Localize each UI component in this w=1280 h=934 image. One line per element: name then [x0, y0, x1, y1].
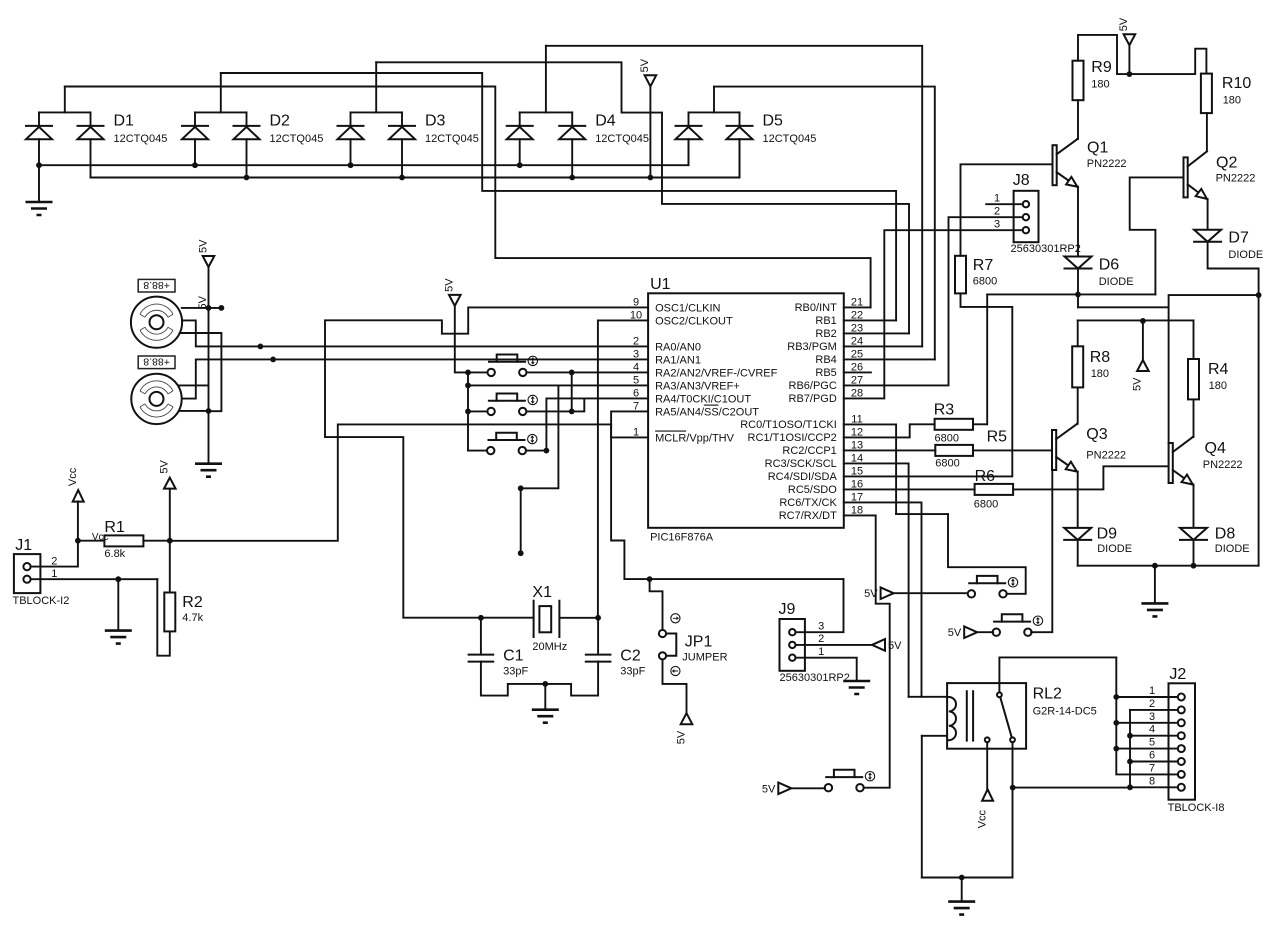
wire Q3 emitter to D9 [1076, 472, 1079, 528]
svg-text:+88.8: +88.8 [143, 279, 170, 291]
junction bus ground stem [1152, 563, 1158, 569]
junction J2 odd column y=697.0 [1113, 694, 1119, 700]
ground near D1 [26, 202, 53, 215]
svg-text:J1: J1 [15, 537, 32, 554]
wire 5V to button A [894, 592, 968, 594]
junction right rail [1256, 292, 1262, 298]
junction bus2 x=650.4 [648, 175, 654, 181]
junction row1 branch [569, 370, 575, 376]
svg-text:12CTQ045: 12CTQ045 [425, 133, 479, 145]
svg-text:U1: U1 [650, 276, 671, 293]
svg-text:PN2222: PN2222 [1087, 158, 1127, 170]
push button B [993, 629, 1000, 636]
wire motor1 pin A [182, 307, 222, 309]
wire bus1 cathode rail [39, 139, 689, 165]
D2 diode B bottom lead [246, 139, 248, 177]
junction on RA1 wire [270, 357, 276, 363]
ground relay [948, 902, 975, 915]
wire Q1 emitter to D6 [1076, 187, 1079, 257]
wire R9 top to 5V rail [1078, 35, 1206, 74]
power 5V button B [964, 626, 977, 638]
svg-text:2: 2 [1149, 698, 1155, 710]
wire J8 pin3 to RB7 pin28 [844, 230, 1023, 398]
D5 diode A bottom lead [688, 139, 690, 165]
diode D5 A [676, 125, 702, 127]
transistor Q4 PN2222 [1169, 443, 1173, 483]
wire RC1 pin12 jog [844, 424, 935, 437]
svg-text:5V: 5V [159, 459, 171, 473]
diode D6 [1065, 257, 1092, 269]
svg-text:3: 3 [994, 218, 1000, 230]
wire J2 odd pin at y=748.6 [1116, 748, 1178, 750]
svg-text:TBLOCK-I8: TBLOCK-I8 [1168, 802, 1225, 814]
power 5V near D4 [645, 75, 657, 86]
JP1 actuator icon top [671, 614, 680, 623]
wire RC6 pin17 down [844, 502, 922, 696]
svg-text:2: 2 [994, 205, 1000, 217]
junction bus2 x=402.0 [399, 175, 405, 181]
D5 diode B top lead [739, 112, 741, 126]
J9 pin1 circle [789, 655, 795, 661]
svg-text:5: 5 [1149, 737, 1155, 749]
svg-text:J9: J9 [779, 601, 796, 618]
resistor R3 [935, 419, 973, 430]
J2 pin 6 circle [1178, 758, 1185, 765]
wire R6 left lead [844, 488, 975, 490]
diode D3 B [389, 125, 415, 127]
svg-text:5V: 5V [864, 588, 878, 600]
J8 25630301RP2 body [1014, 191, 1039, 242]
wire D9 bottom [1077, 540, 1079, 566]
svg-text:RC3/SCK/SCL: RC3/SCK/SCL [765, 458, 837, 470]
J8 pin1 circle [1023, 201, 1029, 207]
power Vcc relay [982, 789, 993, 801]
wire relay common riser [999, 657, 1116, 692]
transistor Q1 PN2222 [1053, 145, 1057, 185]
JP1 bottom circle [659, 652, 666, 659]
resistor R4 [1188, 359, 1199, 399]
svg-text:180: 180 [1223, 95, 1241, 107]
wire J9 pin1 to ground [796, 658, 857, 681]
wire Vcc to R1 [78, 540, 105, 542]
svg-text:D7: D7 [1228, 230, 1249, 247]
svg-text:Q1: Q1 [1087, 140, 1108, 157]
wire RC0 pin11 down [844, 424, 896, 514]
svg-text:5V: 5V [675, 730, 687, 744]
resistor R6 [975, 484, 1014, 495]
svg-text:1: 1 [818, 646, 824, 658]
J8 pin2 circle [1023, 214, 1029, 220]
svg-text:4: 4 [1149, 724, 1155, 736]
relay NC terminal [985, 737, 990, 742]
J9 pin3 circle [789, 629, 795, 635]
resistor R5 [935, 445, 973, 456]
wire R1 right [143, 540, 169, 542]
svg-text:D3: D3 [425, 113, 446, 130]
push button A [968, 590, 975, 597]
junction MCLR JP1 [647, 576, 653, 582]
wire 5V to button C [791, 787, 825, 789]
junction bus1 x=519.7 [517, 162, 523, 168]
D5 diode B bottom lead [739, 139, 741, 177]
wire relay ground stem [961, 878, 963, 902]
wire R7 bottom to RC4 pin15 [844, 293, 1013, 476]
svg-text:6800: 6800 [935, 433, 959, 445]
svg-text:D4: D4 [595, 113, 616, 130]
svg-text:Q4: Q4 [1205, 440, 1226, 457]
wire 5V-D4 to bus2 [649, 86, 651, 177]
D5 top bar [689, 111, 740, 113]
resistor R9 [1073, 61, 1084, 100]
power 5V above buttons [449, 295, 461, 306]
J9 25630301RP2 body [780, 619, 805, 671]
junction Vcc node [75, 538, 81, 544]
wire diode ground bus [1078, 565, 1259, 567]
junction motor2 C and 5V column [206, 408, 212, 414]
wire RC0-RC6 link [896, 513, 948, 515]
junction bus1 x=39.0 [36, 162, 42, 168]
wire RA3 branch down [521, 385, 559, 488]
resistor R1 [104, 535, 143, 546]
svg-text:OSC2/CLKOUT: OSC2/CLKOUT [655, 315, 733, 327]
diode D2 B [234, 125, 260, 127]
wire pin26 stub [844, 371, 871, 373]
push button row3 [487, 447, 494, 454]
svg-text:D8: D8 [1215, 525, 1236, 542]
wire row3 right [526, 450, 547, 452]
relay switch arm [1000, 697, 1012, 738]
svg-text:R9: R9 [1091, 59, 1112, 76]
svg-text:1: 1 [51, 568, 57, 580]
diode D7 [1194, 230, 1221, 242]
svg-text:180: 180 [1209, 380, 1227, 392]
wire pin21 line [844, 306, 871, 308]
wire 5V to R1 node [169, 489, 171, 541]
svg-text:5V: 5V [197, 239, 209, 253]
power 5V above R2 [164, 478, 176, 489]
wire 5V column motors to ground [208, 267, 210, 464]
wire D7 bottom to right rail [1208, 242, 1259, 566]
motor M1 rpm display [138, 279, 175, 292]
D4 diode B top lead [571, 112, 573, 126]
wire Q1 base net [961, 164, 1053, 256]
capacitor C1 [469, 655, 494, 662]
svg-text:5V: 5V [762, 783, 776, 795]
D4 top bar [520, 111, 573, 113]
wire row3 left [468, 450, 487, 452]
D3 top bar [351, 111, 403, 113]
relay NO terminal [1010, 737, 1015, 742]
wire bus2 cathode rail [91, 139, 740, 177]
power 5V button A [881, 587, 894, 599]
wire Q2 collector to R10 [1206, 113, 1208, 151]
junction J2 even column y=787.3 [1127, 784, 1133, 790]
relay pivot terminal [997, 692, 1002, 697]
wire coil top lead [909, 696, 948, 698]
svg-text:12CTQ045: 12CTQ045 [114, 133, 168, 145]
terminal RA3 stub end [518, 550, 524, 556]
J1 pin 2 circle [23, 563, 30, 570]
junction bus2 x=572.2 [569, 175, 575, 181]
motor M1 [131, 297, 182, 348]
junction bus1 x=195.0 [192, 162, 198, 168]
wire R5 right to Q3 base [973, 449, 1052, 451]
svg-text:G2R-14-DC5: G2R-14-DC5 [1033, 705, 1097, 717]
crystal X1 body [539, 606, 551, 632]
svg-text:180: 180 [1091, 368, 1109, 380]
JP1 top circle [659, 630, 666, 637]
svg-text:DIODE: DIODE [1097, 543, 1132, 555]
power 5V mid right [1137, 360, 1149, 371]
J2 pin 1 circle [1178, 694, 1185, 701]
svg-text:C2: C2 [620, 647, 641, 664]
JP1 bracket [668, 634, 677, 656]
wire net D5 to RB4 pin25 [714, 87, 935, 360]
D2 top bar [195, 111, 247, 113]
svg-text:20MHz: 20MHz [532, 641, 567, 653]
J2 pin 5 circle [1178, 745, 1185, 752]
svg-text:12CTQ045: 12CTQ045 [595, 133, 649, 145]
D1 diode B top lead [90, 112, 92, 126]
wire motor2 pin A [179, 384, 208, 386]
J2 pin 7 circle [1178, 771, 1185, 778]
svg-text:PN2222: PN2222 [1216, 173, 1256, 185]
junction row3 right [544, 448, 550, 454]
crystal X1 electrodes [534, 601, 560, 637]
wire J2 odd column [1116, 657, 1178, 774]
wire J8 pin2 to RB6 pin27 [844, 217, 1023, 385]
ground J9 [843, 681, 870, 694]
J2 TBLOCK-I8 body [1169, 683, 1196, 799]
svg-text:Q3: Q3 [1086, 426, 1107, 443]
junction J1 pin1 ground [115, 576, 121, 582]
wire RA0 pin2 to motor1 [183, 320, 648, 346]
svg-text:2: 2 [51, 555, 57, 567]
wire RA3 pin5 net [468, 384, 558, 386]
junction J2 odd column y=748.6 [1113, 746, 1119, 752]
resistor R10 [1201, 74, 1212, 114]
svg-text:R10: R10 [1222, 75, 1251, 92]
svg-text:PN2222: PN2222 [1203, 459, 1243, 471]
wire Q4 collector to R4 [1192, 399, 1195, 437]
svg-text:MCLR/Vpp/THV: MCLR/Vpp/THV [655, 432, 735, 444]
wire R3 right lead [973, 423, 987, 425]
D4 diode A top lead [519, 112, 521, 126]
wire R4 top [1193, 320, 1195, 359]
D2 diode A top lead [194, 112, 196, 126]
junction NO output node [1010, 785, 1016, 791]
svg-text:OSC1/CLKIN: OSC1/CLKIN [655, 302, 720, 314]
ground diode bus [1141, 603, 1168, 616]
wire motor1 pin C [180, 333, 222, 411]
J2 pin 2 circle [1178, 706, 1185, 713]
push button C [825, 784, 832, 791]
transistor Q3 PN2222 [1052, 430, 1056, 470]
wire R2 bottom loop to J1 pin1 [157, 579, 170, 656]
wire Q1 collector to R9 [1076, 100, 1079, 139]
wire row1-row2 link vertical [571, 372, 573, 411]
wire D6 net to R3 riser [987, 293, 1155, 295]
svg-text:DIODE: DIODE [1228, 249, 1263, 261]
wire MCLR net down [611, 424, 843, 579]
svg-text:1: 1 [1149, 685, 1155, 697]
wire Q2 emitter to D7 [1206, 199, 1209, 230]
D1 diode A top lead [38, 112, 40, 126]
svg-text:R3: R3 [934, 401, 955, 418]
svg-text:RL2: RL2 [1033, 685, 1062, 702]
svg-text:RC7/RX/DT: RC7/RX/DT [779, 510, 837, 522]
wire 5V to button column [455, 306, 468, 373]
D3 diode B bottom lead [401, 139, 403, 177]
wire net D4 to RB3 pin24 [546, 46, 922, 347]
svg-text:R5: R5 [987, 429, 1008, 446]
wire D6 bottom lead [1077, 269, 1079, 308]
J2 pin 8 circle [1178, 784, 1185, 791]
wire J2 even pin at y=735.7 [1130, 735, 1178, 737]
svg-text:J2: J2 [1169, 666, 1186, 683]
svg-text:8: 8 [1149, 775, 1155, 787]
svg-text:RC0/T1OSO/T1CKI: RC0/T1OSO/T1CKI [740, 419, 837, 431]
svg-text:DIODE: DIODE [1099, 276, 1134, 288]
wire 5V to button B [977, 631, 993, 633]
wire OSC1 pin9 net [325, 307, 648, 617]
junction button column row2 [465, 409, 471, 415]
wire 5V lead top right [1128, 45, 1130, 74]
capacitor C2 [586, 655, 611, 662]
wire J1 pin2 to Vcc [31, 541, 78, 567]
D4 diode A bottom lead [519, 139, 521, 165]
wire J2 even column [1130, 709, 1178, 711]
svg-text:RC5/SDO: RC5/SDO [788, 484, 837, 496]
svg-text:25630301RP2: 25630301RP2 [780, 672, 850, 684]
svg-text:RB4: RB4 [815, 354, 836, 366]
svg-text:180: 180 [1091, 79, 1109, 91]
junction bus2 x=246.5 [244, 175, 250, 181]
wire D1 stub up [64, 87, 66, 113]
svg-text:5V: 5V [639, 58, 651, 72]
svg-text:JP1: JP1 [685, 633, 713, 650]
svg-text:D2: D2 [270, 113, 291, 130]
wire RA3 stub down [520, 488, 522, 553]
svg-text:TBLOCK-I2: TBLOCK-I2 [13, 595, 70, 607]
wire MCLR to JP1 branch [650, 579, 663, 630]
J2 pin 4 circle [1178, 732, 1185, 739]
wire OSC2 pin10 net [598, 320, 648, 617]
wire RC2 pin13 to R5 [844, 449, 936, 451]
svg-text:33pF: 33pF [620, 666, 645, 678]
junction RA3 branch [518, 485, 524, 491]
svg-text:RC4/SDI/SDA: RC4/SDI/SDA [768, 471, 838, 483]
U1 PIC16F876A body [648, 293, 844, 528]
wire crystal ground stem [544, 684, 546, 710]
svg-text:RC1/T1OSI/CCP2: RC1/T1OSI/CCP2 [748, 432, 837, 444]
svg-text:1: 1 [994, 192, 1000, 204]
ground motor column [195, 464, 222, 477]
diode D1 B [78, 125, 104, 127]
wire RC7 pin18 down [844, 515, 890, 787]
diode D4 A [507, 125, 533, 127]
D3 diode A top lead [350, 112, 352, 126]
wire C2 top lead [597, 618, 599, 655]
D2 diode A bottom lead [194, 139, 196, 165]
wire relay NO down [1012, 742, 1014, 877]
svg-text:C1: C1 [503, 647, 524, 664]
wire relay ground loop [922, 877, 1013, 879]
svg-text:R1: R1 [104, 519, 125, 536]
svg-text:4.7k: 4.7k [182, 612, 203, 624]
svg-text:6.8k: 6.8k [104, 548, 125, 560]
relay RL2 core [967, 691, 973, 740]
wire relay NC to Vcc [986, 742, 988, 789]
junction crystal ground node [542, 681, 548, 687]
power 5V at J9 pin2 [872, 639, 885, 651]
junction row2 branch [569, 409, 575, 415]
JP1 actuator icon bottom [671, 666, 680, 675]
wire net D1 to RB0 pin21 [65, 87, 871, 308]
diode D1 A [26, 125, 52, 127]
junction button column row1 [465, 370, 471, 376]
motor M2 [131, 374, 181, 424]
wire D5 stub up [713, 87, 715, 113]
svg-text:Vcc: Vcc [976, 809, 988, 828]
svg-text:RC2/CCP1: RC2/CCP1 [782, 445, 836, 457]
wire J9 pin3 to MCLR net [796, 579, 844, 632]
junction relay ground stem [959, 875, 965, 881]
svg-text:D1: D1 [114, 113, 135, 130]
svg-text:R6: R6 [975, 468, 996, 485]
svg-text:12CTQ045: 12CTQ045 [763, 133, 817, 145]
svg-text:PIC16F876A: PIC16F876A [650, 532, 714, 544]
D5 diode A top lead [688, 112, 690, 126]
wire J2 odd pin at y=722.8 [1116, 722, 1178, 724]
wire MCLR net left to R1 [170, 424, 611, 540]
svg-text:6800: 6800 [974, 498, 998, 510]
svg-text:3: 3 [1149, 711, 1155, 723]
D1 diode A bottom lead [38, 139, 40, 165]
svg-text:RA5/AN4/SS/C2OUT: RA5/AN4/SS/C2OUT [655, 406, 759, 418]
svg-text:PN2222: PN2222 [1086, 449, 1126, 461]
junction bus D8 [1191, 563, 1197, 569]
svg-text:Q2: Q2 [1216, 155, 1237, 172]
svg-text:25630301RP2: 25630301RP2 [1011, 243, 1081, 255]
wire J8 pin1 stub [986, 203, 1023, 205]
svg-text:D5: D5 [763, 113, 784, 130]
svg-text:2: 2 [818, 633, 824, 645]
svg-text:RB3/PGM: RB3/PGM [787, 341, 837, 353]
wire NO output to J2 even pins [1013, 787, 1130, 789]
J1 pin 1 circle [23, 576, 30, 583]
wire MCLR pin1 [611, 436, 648, 438]
svg-text:5V: 5V [948, 627, 962, 639]
ground J1 [105, 631, 132, 644]
wire bus ground stem [1154, 566, 1156, 604]
diode D4 B [559, 125, 585, 127]
svg-text:33pF: 33pF [503, 666, 528, 678]
wire J2 even column vertical [1129, 710, 1131, 788]
push button row2 [487, 408, 494, 415]
svg-text:6: 6 [1149, 750, 1155, 762]
D3 diode B top lead [401, 112, 403, 126]
wire C2 bottom loop [545, 662, 598, 696]
J9 pin2 circle [789, 642, 795, 648]
transistor Q2 PN2222 [1184, 157, 1188, 197]
junction 5V top right [1127, 71, 1133, 77]
svg-text:DIODE: DIODE [1215, 543, 1250, 555]
wire J9 pin2 to 5V [796, 644, 873, 646]
J8 pin3 circle [1023, 227, 1029, 233]
svg-text:3: 3 [818, 620, 824, 632]
diode D9 [1064, 528, 1091, 540]
